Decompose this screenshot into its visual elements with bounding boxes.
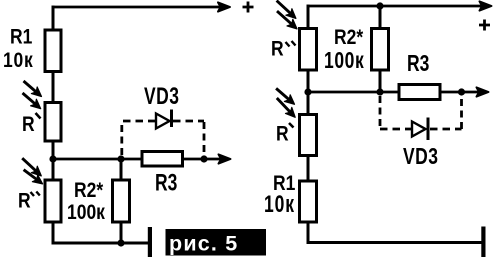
node: junction of rail and R3 branch wire (49, 155, 56, 162)
node: junction of R3 output and VD3 right leg (200, 155, 207, 162)
diode VD3 symbol (left) (156, 110, 172, 129)
light arrows onto photoresistor R' (23, 81, 42, 109)
label VD3 (right) (403, 144, 439, 170)
svg-text:R3: R3 (407, 52, 429, 77)
label R2* (left) (74, 180, 104, 203)
wire: left rail top segment (R1 top to top wire corner) (52, 6, 55, 31)
wire: R2 bottom lead down to middle wire (right) (379, 70, 382, 93)
resistor R3 (left) (142, 152, 183, 167)
wire: rail bottom segment below R1 (right) (307, 222, 310, 244)
wire: bottom return wire (right circuit) (307, 241, 482, 244)
resistor R1 (45, 30, 61, 72)
svg-text:R: R (18, 190, 31, 213)
svg-text:R3: R3 (155, 170, 177, 196)
svg-text:VD3: VD3 (403, 144, 439, 170)
node + (right supply polarity label) (479, 20, 490, 31)
svg-text:10к: 10к (3, 50, 34, 73)
photoresistor R' (45, 103, 61, 142)
label R1 (right) (273, 173, 296, 196)
wire: bottom return wire (left circuit) (52, 242, 149, 245)
node: junction of middle wire and VD3 left leg / R2 (right) (376, 88, 383, 95)
light arrows onto photoresistor R' (right) (276, 88, 295, 117)
wire: positive supply top wire with arrow (52, 2, 231, 11)
label 100k value of R2 (left) (67, 202, 105, 225)
resistor R2* (right, trimmer) (372, 29, 389, 71)
photoresistor R' (right) (300, 115, 317, 156)
label R3 (right) (407, 52, 429, 77)
wire: rail bottom segment below R'' (52, 222, 55, 244)
svg-text:10к: 10к (264, 192, 295, 218)
resistor R3 (right) (399, 85, 440, 100)
wire: rail between R' and R'' (52, 141, 55, 181)
diode VD3 (left, shown dashed as optional) (122, 121, 204, 155)
terminal bar at end of left bottom wire (148, 227, 152, 257)
label VD3 (left) (144, 83, 180, 109)
wire: middle output wire with R3 and arrow (right) (308, 87, 489, 96)
label R' (right) (276, 123, 294, 146)
wire: R2 bottom lead to return wire (120, 222, 123, 244)
light arrows onto photoresistor R'' (22, 158, 42, 184)
svg-text:VD3: VD3 (144, 83, 180, 109)
diode VD3 symbol (right) (412, 118, 428, 141)
label R1 (10, 26, 33, 49)
photoresistor R'' (45, 180, 61, 222)
svg-text:R2*: R2* (74, 180, 104, 203)
terminal bar at end of right bottom wire (481, 227, 485, 257)
svg-text:100к: 100к (67, 202, 105, 225)
wire: positive supply top wire (right) with arrow (307, 1, 492, 10)
label R' (22, 113, 41, 136)
svg-text:R2*: R2* (334, 27, 364, 50)
wire: rail between R1 and R' (52, 72, 55, 104)
diode VD3 (right, shown dashed as optional) (380, 96, 462, 129)
label 10k value of R1 (right) (264, 192, 295, 218)
svg-text:R: R (22, 114, 35, 137)
node: junction of R2 branch with bottom return wire (117, 239, 124, 246)
label 10k value of R1 (3, 50, 34, 73)
svg-text:R: R (276, 123, 289, 146)
svg-text:рис. 5: рис. 5 (169, 232, 238, 256)
wire: rail between R'' and R' (right) (307, 70, 310, 115)
label R2* (right) (334, 27, 364, 50)
node: junction of top wire and R2 branch (right) (376, 2, 383, 9)
photoresistor R'' (right) (300, 29, 317, 71)
light arrows onto photoresistor R'' (right) (277, 1, 297, 29)
label R3 (left) (155, 170, 177, 196)
caption box: figure label (166, 229, 267, 256)
node: junction of R3 branch and VD3 / R2 branch (117, 155, 124, 162)
label R'' (18, 190, 40, 213)
svg-text:R: R (271, 38, 284, 61)
wire: right rail top segment to top wire corner (307, 5, 310, 29)
wire: rail between R' and R1 (right) (307, 156, 310, 183)
node: junction of rail and middle output wire (right) (304, 88, 311, 95)
label R'' (right) (271, 38, 296, 61)
wire: R2 branch from node down to R2 (120, 159, 123, 181)
resistor R2* (left, trimmer) (113, 180, 130, 222)
resistor R1 (right) (300, 181, 317, 222)
svg-text:100к: 100к (324, 49, 364, 74)
svg-text:R1: R1 (10, 26, 33, 49)
node: junction of middle wire and VD3 right leg (right) (458, 88, 465, 95)
node + (left supply polarity label) (243, 2, 254, 13)
label 100k value of R2 (right) (324, 49, 364, 74)
wire: middle output wire with R3 and arrow (53, 154, 231, 163)
wire: R2 branch top lead (right) (379, 6, 382, 29)
